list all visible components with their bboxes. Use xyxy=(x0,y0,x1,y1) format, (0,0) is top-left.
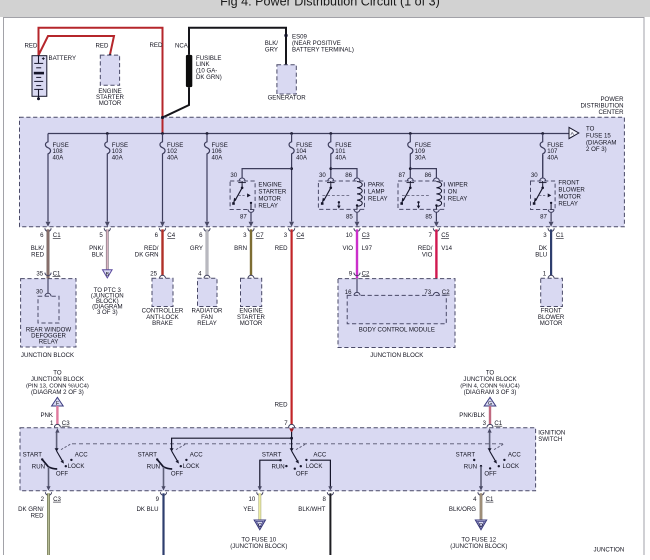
node bus junction fuse 104 xyxy=(290,132,293,135)
pin 9 C2 connector xyxy=(349,270,370,277)
svg-text:30: 30 xyxy=(319,172,326,179)
svg-text:BATTERY: BATTERY xyxy=(49,55,77,62)
body control module U2 xyxy=(347,295,446,323)
svg-text:5: 5 xyxy=(99,232,103,239)
ignition exit arrow pin 10 xyxy=(258,486,262,490)
wire BLK generator to fusible link (top run) xyxy=(189,28,286,65)
pin 86 label (K3) xyxy=(425,172,432,179)
PDC exit arrow at x=251 xyxy=(249,222,254,227)
svg-text:GRY: GRY xyxy=(190,245,203,252)
pin 87 label (K3) xyxy=(399,172,406,179)
svg-text:C5: C5 xyxy=(441,232,449,239)
svg-text:ACC: ACC xyxy=(75,452,88,459)
pin 87 label (K1) xyxy=(240,213,247,220)
svg-text:LOCK: LOCK xyxy=(183,463,200,470)
svg-text:V14: V14 xyxy=(441,245,452,252)
label FRONT BLOWER MOTOR xyxy=(538,307,565,327)
svg-text:RELAY: RELAY xyxy=(558,200,578,207)
wire RED/VIO V14 pin 7 C5 to body control module xyxy=(418,228,453,292)
svg-text:WIPER: WIPER xyxy=(448,181,469,188)
pin 1 front blower motor xyxy=(543,270,554,278)
svg-text:2 OF 3): 2 OF 3) xyxy=(586,146,607,153)
connector arrow G from junction block xyxy=(484,397,496,407)
svg-text:PNK: PNK xyxy=(40,412,53,419)
svg-text:87: 87 xyxy=(240,213,247,220)
PDC exit arrow at x=162.5 xyxy=(160,222,165,227)
svg-text:RELAY: RELAY xyxy=(197,320,217,327)
controller anti-lock brake U1 xyxy=(152,278,173,306)
pin 35 C1 connector xyxy=(36,270,61,277)
relay K3 wiper on relay xyxy=(398,178,444,212)
pin 16 body control module xyxy=(345,289,360,296)
svg-text:RED: RED xyxy=(31,251,44,258)
svg-text:JUNCTION BLOCK: JUNCTION BLOCK xyxy=(463,376,516,383)
svg-text:BLK: BLK xyxy=(92,251,104,258)
connector arrow A to fuse 15 xyxy=(569,127,579,138)
fuse 109 30A xyxy=(408,134,431,179)
wire RED pin 3 C4 to ignition switch xyxy=(275,228,305,424)
svg-text:LOCK: LOCK xyxy=(503,463,520,470)
svg-text:C1: C1 xyxy=(494,420,502,427)
svg-text:RELAY: RELAY xyxy=(39,339,59,346)
svg-text:JUNCTION: JUNCTION xyxy=(594,547,625,554)
svg-text:40A: 40A xyxy=(296,155,308,162)
pin 85 label (K2) xyxy=(346,213,353,220)
relay K4 front blower motor relay xyxy=(531,178,556,212)
svg-text:30A: 30A xyxy=(415,155,427,162)
wire PNK/BLK to ignition switch pin 3 C1 xyxy=(459,406,490,425)
label TO FUSE 10 (JUNCTION BLOCK) xyxy=(230,536,287,550)
svg-text:FUSE 15: FUSE 15 xyxy=(586,133,611,140)
relay K1 engine starter motor relay (feed jog) xyxy=(242,167,293,178)
PDC exit arrow at x=436.4 xyxy=(434,222,439,227)
label NEAR POSITIVE BATTERY TERMINAL xyxy=(292,40,354,53)
svg-text:DK BLU: DK BLU xyxy=(136,506,158,513)
svg-text:ENGINE: ENGINE xyxy=(258,181,281,188)
node bus junction fuse 106 xyxy=(206,132,209,135)
ignition exit arrow pin 8 xyxy=(328,486,332,490)
svg-text:JUNCTION BLOCK: JUNCTION BLOCK xyxy=(31,376,84,383)
node bus junction fuse 109 xyxy=(409,132,412,135)
label IGNITION SWITCH xyxy=(538,430,565,444)
svg-text:73: 73 xyxy=(424,289,431,296)
ignition exit arrow pin 4 C1 xyxy=(479,486,483,490)
relay K3 wiper on relay (feed jog) xyxy=(409,167,437,178)
svg-text:YEL: YEL xyxy=(243,506,255,513)
battery BT1 xyxy=(32,56,47,97)
pin 73 C2 body control module xyxy=(424,289,450,296)
svg-text:(DIAGRAM 2 OF 3): (DIAGRAM 2 OF 3) xyxy=(31,389,84,396)
svg-text:C3: C3 xyxy=(362,232,370,239)
wire ignition switch pole 1 output xyxy=(48,467,50,487)
svg-text:MOTOR: MOTOR xyxy=(258,195,281,202)
fuse 107 40A xyxy=(540,134,563,179)
PDC exit arrow at x=48 xyxy=(46,222,51,227)
svg-text:PNK/BLK: PNK/BLK xyxy=(459,412,485,419)
wire BLK/WHT pin 8 xyxy=(298,492,333,556)
label TO FUSE 15 (DIAGRAM 2 OF 3) xyxy=(586,126,616,154)
radiator fan relay K6 xyxy=(198,278,218,306)
relay K5 rear window defogger relay xyxy=(38,296,59,323)
svg-text:40A: 40A xyxy=(212,155,224,162)
svg-text:FRONT: FRONT xyxy=(558,179,579,186)
PDC exit arrow at x=207 xyxy=(205,222,210,227)
svg-text:30: 30 xyxy=(531,172,538,179)
svg-text:VIO: VIO xyxy=(343,245,354,252)
wire GRY pin 6 to radiator fan relay xyxy=(190,228,210,275)
svg-text:STARTER: STARTER xyxy=(258,188,286,195)
svg-text:RUN: RUN xyxy=(271,464,284,471)
svg-text:RELAY: RELAY xyxy=(368,195,388,202)
svg-text:16: 16 xyxy=(345,289,352,296)
fuse 102 40A xyxy=(160,134,183,222)
ignition exit arrow pin 9 xyxy=(161,486,165,490)
svg-text:C1: C1 xyxy=(53,270,61,277)
connector arrow B to PTC 3 xyxy=(103,270,113,278)
svg-text:10: 10 xyxy=(249,496,256,503)
svg-text:DK GRN): DK GRN) xyxy=(196,74,222,81)
label RED (battery feed) xyxy=(25,43,38,50)
svg-text:MOTOR: MOTOR xyxy=(240,320,263,327)
svg-text:OFF: OFF xyxy=(296,471,308,478)
svg-text:86: 86 xyxy=(425,172,432,179)
ignition feed arrow (pin 3) xyxy=(488,428,492,432)
svg-text:C1: C1 xyxy=(53,232,61,239)
svg-text:40A: 40A xyxy=(547,155,559,162)
wire junction block internal to BCM pin 16 xyxy=(356,279,358,293)
svg-text:RED: RED xyxy=(150,42,163,49)
pin 85 label (K3) xyxy=(425,213,432,220)
pin 30 label (K4) xyxy=(531,172,538,179)
svg-text:RELAY: RELAY xyxy=(448,195,468,202)
svg-text:C4: C4 xyxy=(296,232,304,239)
label JUNCTION BLOCK (left) xyxy=(21,352,74,359)
svg-text:RED: RED xyxy=(275,245,288,252)
svg-text:C4: C4 xyxy=(167,232,175,239)
power distribution center box xyxy=(20,117,625,227)
svg-text:BLU: BLU xyxy=(535,251,547,258)
svg-text:40A: 40A xyxy=(167,155,179,162)
wire BLK fusible link to PDC junction xyxy=(163,87,189,117)
svg-text:ON: ON xyxy=(448,188,457,195)
svg-text:10: 10 xyxy=(346,232,353,239)
relay K4 front blower motor relay (feed) xyxy=(542,155,544,178)
svg-text:35: 35 xyxy=(36,270,43,277)
svg-text:ACC: ACC xyxy=(313,452,326,459)
node PDC feed junction xyxy=(161,116,164,119)
svg-text:87: 87 xyxy=(540,213,547,220)
svg-text:RED: RED xyxy=(96,43,109,50)
wire DK GRN/RED pin 2 C3 xyxy=(18,492,61,556)
PDC exit arrow at x=357 xyxy=(355,222,360,227)
svg-text:JUNCTION BLOCK: JUNCTION BLOCK xyxy=(370,352,423,359)
svg-text:RED: RED xyxy=(31,512,44,519)
wire RED battery to engine starter motor xyxy=(39,36,115,55)
wire K4 pin 87 to PDC border xyxy=(550,212,552,221)
node bus junction fuse 102 xyxy=(161,132,164,135)
label TO PTC 3 (JUNCTION BLOCK) (DIAGRAM 3 OF 3) xyxy=(91,287,124,316)
svg-text:NCA: NCA xyxy=(175,43,189,50)
fuse 104 40A xyxy=(289,134,312,222)
svg-text:C3: C3 xyxy=(62,420,70,427)
svg-text:BODY CONTROL MODULE: BODY CONTROL MODULE xyxy=(359,327,435,334)
svg-text:3 OF 3): 3 OF 3) xyxy=(97,309,118,316)
wire VIO L97 pin 10 C3 to junction block xyxy=(343,228,373,278)
wire BLK/ORG pin 4 C1 xyxy=(449,492,494,519)
svg-text:C1: C1 xyxy=(556,232,564,239)
pin 25 controller anti-lock brake xyxy=(150,270,165,278)
svg-text:DK GRN: DK GRN xyxy=(135,251,159,258)
svg-text:86: 86 xyxy=(345,172,352,179)
fuse 101 40A xyxy=(328,134,351,179)
wire K1 pin 87 to PDC border xyxy=(250,212,252,221)
svg-text:PARK: PARK xyxy=(368,181,384,188)
svg-text:85: 85 xyxy=(425,213,432,220)
svg-text:40A: 40A xyxy=(112,155,124,162)
svg-text:ACC: ACC xyxy=(190,452,203,459)
svg-text:GENERATOR: GENERATOR xyxy=(268,95,307,102)
label WIPER ON RELAY xyxy=(448,181,469,202)
svg-text:30: 30 xyxy=(36,289,43,296)
svg-text:MOTOR: MOTOR xyxy=(540,320,563,327)
ignition switch box xyxy=(20,428,536,491)
wire DK BLU pin 9 xyxy=(136,492,166,556)
title bar xyxy=(0,0,650,17)
svg-text:RED: RED xyxy=(25,43,38,50)
svg-text:RELAY: RELAY xyxy=(258,202,278,209)
label RED (ignition feed) xyxy=(275,402,288,409)
label CONTROLLER ANTI-LOCK BRAKE xyxy=(142,307,184,327)
svg-text:(DIAGRAM 3 OF 3): (DIAGRAM 3 OF 3) xyxy=(464,389,517,396)
wire RED/DK GRN pin 6 C4 to controller anti-lock brake xyxy=(135,228,176,275)
svg-text:RUN: RUN xyxy=(32,464,45,471)
fuse 106 40A xyxy=(204,134,227,222)
pin engine starter motor xyxy=(248,275,254,278)
label BLK/GRY xyxy=(265,40,279,53)
pin 7 ignition switch xyxy=(284,420,294,428)
svg-text:ACC: ACC xyxy=(508,452,521,459)
wire PDC internal bus xyxy=(48,133,569,135)
svg-text:C2: C2 xyxy=(362,270,370,277)
pin 86 label (K2) xyxy=(345,172,352,179)
svg-text:OFF: OFF xyxy=(171,471,183,478)
svg-text:(JUNCTION BLOCK): (JUNCTION BLOCK) xyxy=(450,543,507,550)
node engine starter motor feed xyxy=(109,54,112,57)
label JUNCTION BLOCK (right) xyxy=(370,352,423,359)
svg-text:TO: TO xyxy=(586,126,595,133)
label PARK LAMP RELAY xyxy=(368,181,388,202)
svg-text:40A: 40A xyxy=(335,155,347,162)
wire ignition switch pole 2 output xyxy=(163,467,165,487)
fusible link F0 xyxy=(186,55,192,87)
svg-text:MOTOR: MOTOR xyxy=(99,100,122,107)
wire PNK/BLK pin 5 to PTC 3 connector xyxy=(89,228,110,269)
svg-text:GRY: GRY xyxy=(265,46,278,53)
svg-text:START: START xyxy=(456,452,476,459)
svg-text:B: B xyxy=(106,272,110,278)
svg-text:JUNCTION BLOCK: JUNCTION BLOCK xyxy=(21,352,74,359)
wire PNK to ignition switch pin 1 C3 xyxy=(40,406,57,425)
label BODY CONTROL MODULE xyxy=(359,327,435,334)
wire junction block internal to defogger relay xyxy=(47,279,49,294)
label TO JUNCTION BLOCK (PIN 13) xyxy=(26,369,89,396)
svg-text:(JUNCTION BLOCK): (JUNCTION BLOCK) xyxy=(230,543,287,550)
ignition switch pole 3 (start/acc feed) xyxy=(260,444,331,486)
relay K2 park lamp relay (feed jog) xyxy=(329,167,357,178)
svg-text:L97: L97 xyxy=(362,245,373,252)
label ENGINE STARTER MOTOR RELAY xyxy=(258,181,286,209)
label RED (PDC feed) xyxy=(150,42,163,49)
svg-text:RED: RED xyxy=(275,402,288,409)
relay K1 engine starter motor relay xyxy=(230,178,255,212)
label REAR WINDOW DEFOGGER RELAY xyxy=(26,327,72,346)
svg-text:BLOWER: BLOWER xyxy=(558,186,585,193)
wire RED battery to PDC feed (top bus) xyxy=(39,28,163,118)
svg-text:BLK/WHT: BLK/WHT xyxy=(298,506,325,513)
pin 30 rear window defogger relay xyxy=(36,289,51,297)
node bus junction fuse 103 xyxy=(106,132,109,135)
svg-text:CENTER: CENTER xyxy=(598,109,624,116)
svg-text:BRN: BRN xyxy=(234,245,247,252)
label FUSIBLE LINK (10 GA- DK GRN) xyxy=(196,55,222,81)
junction block (right) box xyxy=(338,279,455,348)
svg-text:START: START xyxy=(23,452,43,459)
fuse 108 40A xyxy=(45,134,68,222)
ignition switch pole 1 (battery feed) xyxy=(23,433,89,478)
pin 87 label (K4) xyxy=(540,213,547,220)
svg-text:85: 85 xyxy=(346,213,353,220)
svg-text:VIO: VIO xyxy=(422,251,433,258)
engine starter motor M1 (top) xyxy=(100,55,119,85)
svg-text:START: START xyxy=(262,452,282,459)
svg-text:BLK/ORG: BLK/ORG xyxy=(449,506,476,513)
label FRONT BLOWER MOTOR RELAY xyxy=(558,179,585,207)
svg-text:C7: C7 xyxy=(256,232,264,239)
PDC exit arrow at x=291.6 xyxy=(289,222,294,227)
connector arrow D to fuse 12 xyxy=(475,520,486,530)
svg-text:D: D xyxy=(479,523,483,529)
svg-text:OFF: OFF xyxy=(484,471,496,478)
wire ignition switch pole 4 output xyxy=(480,466,482,487)
ignition exit arrow pin 2 C3 xyxy=(46,486,50,490)
label RED (starter feed) xyxy=(96,43,109,50)
ignition feed arrow (pin 1) xyxy=(55,428,59,432)
pin 4 radiator fan relay xyxy=(198,270,210,278)
pin 30 label (K2) xyxy=(319,172,326,179)
label POWER DISTRIBUTION CENTER xyxy=(581,96,625,116)
svg-text:LOCK: LOCK xyxy=(68,463,85,470)
wire BLK/RED pin 6 C1 to junction block xyxy=(31,228,61,278)
label ENGINE STARTER MOTOR (top) xyxy=(96,88,124,107)
label TO FUSE 12 (JUNCTION BLOCK) xyxy=(450,536,507,550)
svg-text:START: START xyxy=(138,452,158,459)
svg-text:87: 87 xyxy=(399,172,406,179)
svg-text:BATTERY TERMINAL): BATTERY TERMINAL) xyxy=(292,46,354,53)
svg-text:RUN: RUN xyxy=(147,464,160,471)
wire BRN pin 3 C7 to engine starter motor xyxy=(234,228,264,275)
ignition feed arrow (pin 7) xyxy=(289,428,294,433)
battery negative terminal node xyxy=(37,96,40,100)
wire RED internal distribution xyxy=(172,432,293,450)
label RADIATOR FAN RELAY xyxy=(192,307,224,327)
junction block (left) box xyxy=(21,279,76,347)
node bus junction fuse 107 xyxy=(541,132,544,135)
label NCA xyxy=(175,43,189,50)
svg-text:C3: C3 xyxy=(53,496,61,503)
PDC exit arrow at x=551.1 xyxy=(549,222,554,227)
svg-text:OFF: OFF xyxy=(56,471,68,478)
PDC exit arrow at x=107.3 xyxy=(105,222,110,227)
svg-text:30: 30 xyxy=(230,172,237,179)
node bus junction fuse 101 xyxy=(329,132,332,135)
wire DK BLU pin 3 C1 to front blower motor xyxy=(535,228,564,275)
ignition switch mechanical linkage xyxy=(72,443,503,445)
svg-text:25: 25 xyxy=(150,270,157,277)
generator G1 xyxy=(277,65,296,94)
svg-text:C1: C1 xyxy=(486,496,494,503)
front blower motor M2 xyxy=(541,278,563,306)
pin 3 C1 ignition switch xyxy=(483,420,503,428)
node ES09 xyxy=(284,34,307,41)
svg-text:RUN: RUN xyxy=(464,464,477,471)
pin 30 label (K1) xyxy=(230,172,237,179)
svg-text:BRAKE: BRAKE xyxy=(152,320,173,327)
fuse 103 40A xyxy=(105,134,128,222)
label BATTERY xyxy=(49,55,77,62)
wire RED feed inside PDC xyxy=(162,118,164,134)
label JUNCTION (bottom right) xyxy=(594,547,625,554)
ignition switch pole 2 (run feed) xyxy=(138,444,204,477)
svg-text:SWITCH: SWITCH xyxy=(538,436,562,443)
label TO JUNCTION BLOCK (PIN 4) xyxy=(460,369,520,396)
wire K2 pin 85 to PDC border xyxy=(356,212,358,221)
svg-text:LOCK: LOCK xyxy=(306,463,323,470)
svg-text:C: C xyxy=(258,523,262,529)
svg-text:Fig 4: Power Distribution Circ: Fig 4: Power Distribution Circuit (1 of … xyxy=(220,0,440,9)
label GENERATOR xyxy=(268,95,307,102)
svg-text:40A: 40A xyxy=(53,155,65,162)
engine starter motor M1 (lower) xyxy=(241,278,262,306)
relay K2 park lamp relay xyxy=(318,178,364,212)
svg-text:MOTOR: MOTOR xyxy=(558,193,581,200)
ignition switch pole 4 (accessory feed) xyxy=(456,433,522,478)
connector arrow C to fuse 10 xyxy=(254,520,265,530)
connector arrow F from junction block xyxy=(52,397,64,407)
pin 1 C3 ignition switch xyxy=(50,420,70,428)
label ENGINE STARTER MOTOR (lower) xyxy=(237,307,265,327)
wire K3 pin 85 to PDC border xyxy=(435,212,437,221)
wire YEL pin 10 xyxy=(243,492,263,519)
svg-text:C2: C2 xyxy=(442,289,450,296)
svg-text:LAMP: LAMP xyxy=(368,188,385,195)
